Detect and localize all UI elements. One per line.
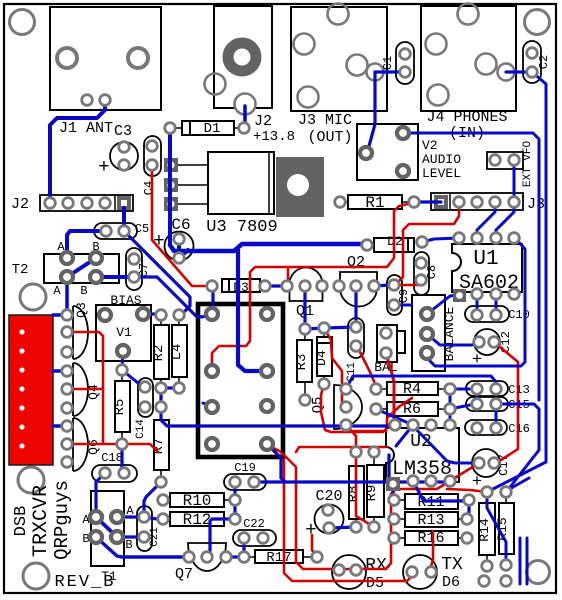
svg-text:Q3: Q3	[74, 302, 89, 318]
svg-text:A: A	[53, 284, 61, 298]
svg-text:BALANCE: BALANCE	[442, 306, 457, 361]
svg-text:C22: C22	[243, 517, 265, 531]
svg-text:D6: D6	[442, 574, 460, 591]
svg-text:V1: V1	[116, 325, 132, 340]
svg-text:R1: R1	[365, 194, 384, 212]
svg-text:R2: R2	[151, 345, 167, 362]
svg-text:D4: D4	[314, 350, 329, 366]
svg-text:R3: R3	[294, 354, 310, 371]
svg-text:B: B	[80, 284, 87, 298]
svg-text:C18: C18	[101, 451, 123, 465]
svg-text:C8: C8	[425, 265, 439, 279]
svg-text:V2: V2	[422, 138, 438, 153]
svg-text:B: B	[125, 538, 132, 552]
svg-text:R13: R13	[417, 512, 444, 529]
svg-text:D1: D1	[204, 121, 221, 137]
svg-text:C1: C1	[381, 56, 395, 70]
svg-text:TX: TX	[441, 555, 463, 575]
svg-text:TRXCVR: TRXCVR	[30, 485, 53, 557]
svg-text:R12: R12	[183, 511, 212, 529]
svg-text:C19: C19	[234, 461, 256, 475]
svg-text:D5: D5	[366, 575, 384, 592]
svg-text:C20: C20	[315, 488, 342, 505]
svg-text:R16: R16	[417, 530, 444, 547]
svg-text:J2: J2	[11, 196, 29, 213]
svg-text:Q5: Q5	[310, 397, 326, 414]
svg-text:R14: R14	[477, 518, 492, 542]
svg-text:REV_B: REV_B	[54, 573, 115, 592]
svg-text:AUDIO: AUDIO	[422, 152, 461, 167]
svg-text:+: +	[98, 156, 109, 178]
svg-text:R5: R5	[112, 399, 128, 416]
svg-text:J2: J2	[254, 113, 272, 130]
svg-text:U1: U1	[473, 248, 498, 271]
svg-text:Q2: Q2	[347, 254, 365, 271]
svg-text:QRPguys: QRPguys	[51, 480, 73, 560]
svg-text:R17: R17	[266, 550, 291, 566]
svg-text:LEVEL: LEVEL	[422, 166, 461, 181]
svg-text:T2: T2	[12, 262, 29, 278]
svg-text:DSB: DSB	[12, 506, 31, 537]
svg-text:C21: C21	[149, 527, 161, 547]
svg-text:+13.8: +13.8	[253, 129, 295, 145]
svg-text:C4: C4	[142, 181, 156, 195]
svg-text:BAL: BAL	[374, 360, 397, 375]
svg-text:BIAS: BIAS	[110, 293, 141, 308]
svg-text:J3: J3	[527, 196, 545, 213]
svg-text:C2: C2	[537, 55, 551, 69]
svg-text:LM358: LM358	[392, 458, 452, 481]
svg-text:Q4: Q4	[86, 384, 101, 400]
svg-text:L4: L4	[169, 344, 185, 361]
svg-text:C5: C5	[135, 222, 149, 236]
svg-text:J3 MIC: J3 MIC	[298, 112, 352, 129]
svg-text:J1 ANT: J1 ANT	[59, 120, 113, 137]
svg-text:C6: C6	[171, 216, 190, 234]
svg-text:Q6: Q6	[86, 439, 101, 455]
svg-text:U3 7809: U3 7809	[206, 218, 277, 237]
svg-text:R9: R9	[364, 485, 380, 502]
svg-text:J4 PHONES: J4 PHONES	[426, 109, 507, 126]
svg-text:R8: R8	[346, 486, 362, 503]
svg-text:RX: RX	[365, 556, 387, 576]
svg-text:Q7: Q7	[175, 566, 193, 583]
svg-text:C14: C14	[135, 419, 147, 439]
svg-text:(OUT): (OUT)	[307, 129, 352, 146]
svg-text:R10: R10	[183, 492, 212, 510]
svg-text:D3: D3	[233, 280, 249, 295]
svg-text:C10: C10	[508, 308, 530, 322]
svg-text:EXT VFO: EXT VFO	[522, 141, 534, 188]
svg-text:R4: R4	[403, 381, 421, 398]
svg-text:C3: C3	[114, 123, 132, 140]
